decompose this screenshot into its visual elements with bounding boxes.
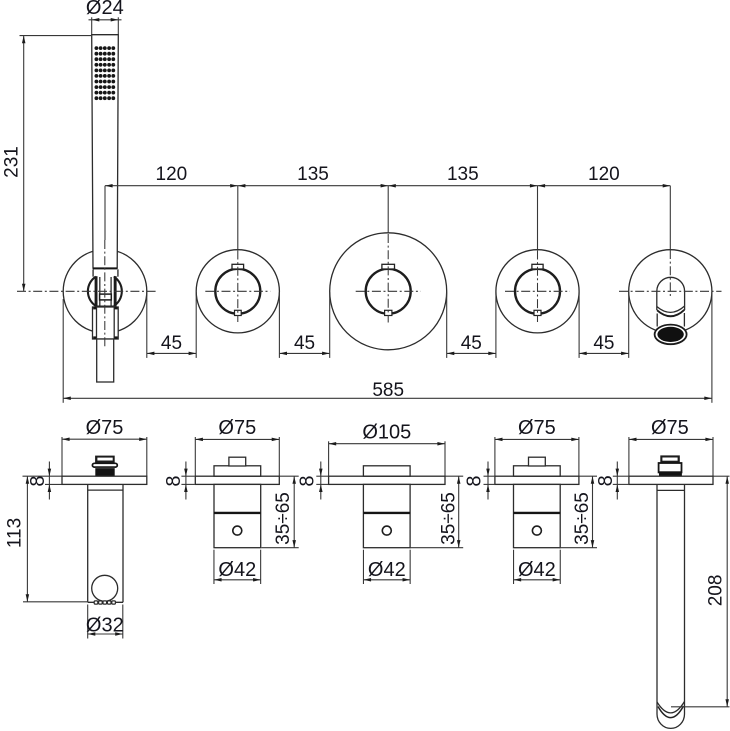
- svg-text:45: 45: [294, 333, 315, 354]
- svg-text:585: 585: [372, 380, 404, 401]
- svg-text:113: 113: [5, 518, 26, 548]
- svg-text:Ø42: Ø42: [218, 559, 256, 581]
- svg-text:Ø75: Ø75: [86, 417, 124, 439]
- svg-text:135: 135: [447, 164, 479, 185]
- svg-text:8: 8: [464, 475, 486, 486]
- svg-text:231: 231: [2, 146, 23, 178]
- svg-text:35÷65: 35÷65: [273, 492, 294, 545]
- svg-text:135: 135: [297, 164, 329, 185]
- svg-text:Ø105: Ø105: [362, 421, 411, 443]
- svg-text:35÷65: 35÷65: [572, 492, 593, 545]
- svg-text:45: 45: [461, 333, 482, 354]
- svg-text:Ø42: Ø42: [518, 559, 556, 581]
- svg-text:Ø75: Ø75: [651, 417, 689, 439]
- svg-text:Ø24: Ø24: [86, 0, 124, 19]
- svg-text:208: 208: [706, 575, 727, 607]
- svg-text:8: 8: [27, 475, 49, 486]
- svg-text:8: 8: [297, 475, 319, 486]
- svg-text:35÷65: 35÷65: [438, 492, 459, 545]
- svg-text:45: 45: [161, 333, 182, 354]
- svg-text:Ø75: Ø75: [518, 417, 556, 439]
- svg-text:Ø75: Ø75: [218, 417, 256, 439]
- svg-text:8: 8: [595, 475, 617, 486]
- svg-text:Ø32: Ø32: [86, 614, 124, 636]
- svg-text:45: 45: [593, 333, 614, 354]
- svg-text:Ø42: Ø42: [368, 559, 406, 581]
- svg-text:8: 8: [163, 475, 185, 486]
- svg-text:120: 120: [156, 164, 188, 185]
- svg-text:120: 120: [588, 164, 620, 185]
